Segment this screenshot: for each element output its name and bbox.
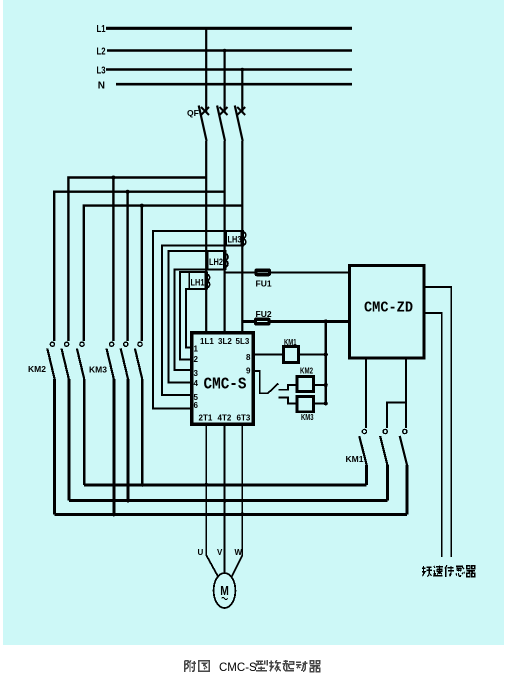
svg-text:4T2: 4T2: [218, 414, 232, 423]
svg-text:QF: QF: [187, 108, 199, 118]
wire selector upper contact to KM2 coil: [279, 385, 298, 390]
svg-text:3L2: 3L2: [218, 337, 232, 346]
contactor KM3 pole1: [107, 342, 114, 514]
wire output rail U: [84, 483, 366, 486]
node tap3-KM3 junction: [140, 204, 144, 208]
CT LH2 coil bumps: [225, 253, 228, 267]
wire KM3 coil to common rail: [314, 402, 326, 404]
CT LH1 coil bumps: [206, 274, 209, 288]
wire phase1 drop from L1: [205, 28, 207, 112]
contactor KM1 pole2: [380, 429, 387, 500]
CT LH3 label: [226, 231, 242, 246]
svg-text:L3: L3: [97, 66, 106, 77]
svg-text:V: V: [217, 548, 223, 557]
svg-text:CMC-ZD: CMC-ZD: [364, 300, 413, 317]
wire FU2 feed from phase3 to CMC-ZD: [242, 320, 349, 323]
svg-text:3: 3: [194, 369, 199, 378]
wire tap2 phase2 to KM2/KM3: [54, 192, 224, 341]
coil KM2: [297, 366, 314, 392]
svg-text:LH2: LH2: [209, 257, 223, 268]
wire FU1 feed from phase2 to CMC-ZD: [225, 271, 350, 273]
contactor KM2 pole2: [62, 342, 69, 501]
wire CMC-ZD bottom lead to KM1 poles 2+3: [387, 358, 406, 428]
starter CMC-S box: [192, 333, 254, 425]
wire KM3 pole3 feeder: [141, 206, 143, 341]
node rail V junctions: [126, 499, 227, 503]
node rail W junctions: [112, 512, 245, 516]
wire phase2 below QF to CMC-S pin 3L2: [224, 141, 226, 333]
wire KM1 coil to common rail: [299, 353, 326, 355]
node KM3 coil junction: [324, 401, 328, 405]
svg-text:KM3: KM3: [89, 365, 107, 375]
svg-text:LH1: LH1: [191, 278, 206, 289]
wire selector lower contact to KM3 coil: [279, 398, 298, 404]
contactor KM3 pole2: [121, 342, 128, 501]
svg-text:6: 6: [194, 401, 199, 410]
contactor KM1 pole3: [400, 429, 407, 514]
wire LH2 secondary b to pin3: [175, 269, 225, 370]
wire phase3 below QF to CMC-S pin 5L3: [241, 141, 243, 333]
svg-text:FU1: FU1: [256, 279, 272, 289]
wire phase2 drop from L2: [224, 51, 226, 113]
wire output rail V: [69, 499, 388, 502]
svg-text:8: 8: [246, 353, 251, 362]
svg-text:6T3: 6T3: [237, 414, 251, 423]
coil KM1: [284, 337, 299, 362]
node L2 junction: [223, 49, 227, 53]
node KM2 coil junction: [324, 383, 328, 387]
contactor KM2 pole1: [47, 342, 54, 514]
wire CMC-ZD bottom lead to KM1 pole1: [365, 358, 367, 428]
wire 2T1 output to motor U: [206, 424, 218, 578]
contactor KM3 pole3: [135, 342, 142, 485]
svg-text:L1: L1: [97, 24, 106, 35]
wire LH3 secondary a to pin6: [153, 231, 242, 409]
wire output rail W: [55, 513, 407, 516]
svg-text:5L3: 5L3: [236, 337, 250, 346]
sensor label 转速传感器: [422, 565, 475, 577]
wire tap1 phase1 to KM2/KM3: [68, 178, 206, 342]
CT LH2 label: [208, 251, 224, 269]
switch selector blade: [268, 384, 279, 394]
CT LH1 label: [189, 272, 205, 289]
CT LH1 primary bar: [204, 272, 208, 290]
wire pin8 to KM1 coil: [253, 353, 283, 355]
wire CMC-ZD sensor lead 1: [424, 287, 451, 557]
wire phase1 below QF to CMC-S pin 1L1: [205, 141, 207, 333]
wire LH1 secondary a to pin2: [180, 272, 206, 359]
bus L3: [97, 66, 353, 77]
wire LH2 secondary a to pin4: [169, 251, 225, 383]
contactor KM1 pole1: [359, 429, 366, 484]
wire LH1 secondary b to pin1: [186, 289, 206, 348]
wire coil common rail: [325, 322, 327, 404]
svg-text:LH3: LH3: [228, 235, 242, 246]
svg-text:KM1: KM1: [346, 454, 364, 464]
wire KM2 coil to common rail: [314, 384, 326, 386]
fuse FU1: [255, 269, 272, 288]
node tap2-KM3 junction: [126, 190, 130, 194]
CT LH3 primary bar: [241, 230, 245, 247]
svg-text:CMC-S: CMC-S: [219, 662, 257, 674]
svg-text:M: M: [220, 583, 229, 598]
svg-text:KM2: KM2: [28, 364, 46, 374]
CT LH2 primary bar: [223, 250, 227, 270]
node rail U junctions: [140, 483, 208, 487]
breaker QF pole2: [217, 106, 227, 142]
svg-text:L2: L2: [97, 47, 106, 58]
breaker QF pole3: [235, 106, 245, 142]
svg-text:9: 9: [246, 367, 251, 376]
node L3 junction: [241, 68, 245, 72]
fuse FU2: [255, 309, 272, 325]
bus L1: [97, 24, 353, 35]
coil KM3: [297, 397, 314, 423]
svg-text:KM2: KM2: [300, 366, 313, 376]
caption 附图 CMC-S型软起动器: [185, 660, 320, 674]
svg-text:KM3: KM3: [301, 412, 314, 422]
svg-text:N: N: [98, 81, 105, 92]
svg-text:4: 4: [194, 379, 199, 388]
svg-text:1: 1: [194, 345, 199, 354]
wire CMC-ZD sensor lead 2: [424, 313, 442, 557]
svg-text:W: W: [235, 548, 243, 557]
svg-text:FU2: FU2: [256, 309, 272, 319]
breaker QF pole1: [199, 106, 209, 142]
contactor KM2 pole3: [77, 342, 84, 485]
svg-text:2T1: 2T1: [199, 414, 213, 423]
node KM1 coil junction: [324, 353, 328, 357]
wire KM3 pole1 feeder: [112, 178, 114, 342]
wire phase3 drop from L3: [241, 70, 243, 113]
svg-text:CMC-S: CMC-S: [204, 376, 247, 395]
svg-text:U: U: [198, 548, 204, 557]
wire 4T2 output to motor V: [224, 424, 226, 573]
node tap1-KM3 junction: [111, 176, 115, 180]
controller CMC-ZD box: [350, 266, 425, 358]
motor M: [214, 573, 236, 608]
wire 6T3 output to motor W: [231, 424, 242, 578]
node FU2 rail junction: [324, 320, 328, 324]
svg-text:2: 2: [194, 355, 199, 364]
svg-text:1L1: 1L1: [200, 337, 214, 346]
CT LH3 coil bumps: [242, 232, 245, 246]
bus N: [98, 81, 352, 92]
wire tap3 phase3 to KM2/KM3: [84, 206, 243, 341]
wire pin9 to selector: [253, 371, 267, 393]
svg-text:KM1: KM1: [284, 337, 297, 347]
wire KM3 pole2 feeder: [126, 192, 128, 341]
bus L2: [97, 47, 353, 58]
wire LH3 secondary b to pin5: [162, 246, 242, 395]
